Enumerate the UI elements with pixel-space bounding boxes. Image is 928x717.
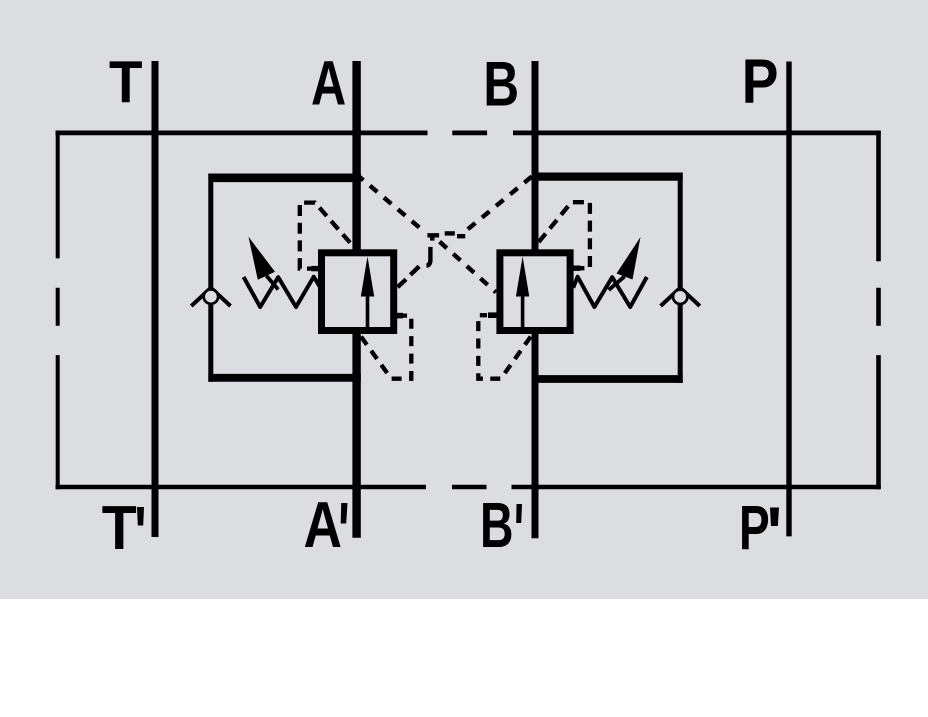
relief valve RV1 pilot stub bbox=[396, 313, 404, 319]
relief valve RV2 body bbox=[500, 253, 570, 331]
pilot line from A to valve RV2 part 2 bbox=[440, 242, 496, 293]
body outline bottom edge bbox=[56, 485, 881, 490]
relief valve RV1 flow arrow bbox=[361, 257, 374, 328]
RV1 spring bbox=[244, 277, 321, 307]
body outline top edge bbox=[56, 130, 881, 135]
right loop vertical wire bbox=[678, 173, 683, 383]
left loop top branch bbox=[208, 174, 360, 183]
port line A bbox=[352, 61, 360, 538]
check valve CV1 seat bbox=[191, 288, 230, 306]
left loop vertical wire bbox=[208, 174, 213, 382]
relief valve RV1 spring-side stub bbox=[311, 266, 319, 271]
relief valve RV1 body bbox=[322, 253, 394, 331]
port line B bbox=[532, 61, 539, 538]
RV2 vent dashed box to line B bbox=[538, 202, 590, 268]
relief valve RV2 spring-side stub bbox=[573, 266, 581, 271]
body outline right edge bbox=[876, 131, 881, 489]
right loop top branch bbox=[532, 173, 683, 181]
check valve CV1 ball bbox=[204, 289, 218, 303]
svg-text:P: P bbox=[739, 493, 770, 563]
svg-text:A: A bbox=[311, 48, 346, 118]
check valve CV2 seat bbox=[661, 288, 700, 306]
RV2 adjustment arrow bbox=[609, 237, 641, 290]
right loop bottom branch bbox=[532, 375, 683, 383]
RV1 pressure pilot dashed box from A bbox=[361, 316, 411, 379]
svg-text:B: B bbox=[483, 50, 519, 120]
RV2 spring bbox=[573, 277, 647, 307]
check valve CV2 ball bbox=[673, 290, 687, 304]
left loop bottom branch bbox=[208, 374, 360, 382]
svg-text:A: A bbox=[304, 488, 343, 561]
pilot line bridge over crossing bbox=[426, 233, 465, 265]
svg-text:P: P bbox=[742, 47, 779, 117]
svg-text:B: B bbox=[480, 489, 514, 561]
relief valve RV2 pilot stub bbox=[488, 312, 497, 318]
svg-text:T: T bbox=[102, 494, 137, 563]
port line T bbox=[152, 61, 159, 537]
RV1 adjustment arrow bbox=[249, 237, 279, 290]
pilot line from A to valve RV2 part 1 bbox=[359, 177, 421, 229]
RV1 vent dashed box to line A bbox=[300, 203, 353, 269]
body outline left edge bbox=[56, 131, 60, 489]
pilot line from B to valve RV1 upper diagonal bbox=[462, 177, 532, 235]
svg-text:T: T bbox=[109, 49, 143, 116]
port line P bbox=[786, 62, 791, 537]
pilot line from bridge to valve RV1 bbox=[398, 266, 420, 287]
relief valve RV2 flow arrow bbox=[516, 257, 529, 328]
RV2 pressure pilot dashed box from B bbox=[478, 315, 530, 379]
